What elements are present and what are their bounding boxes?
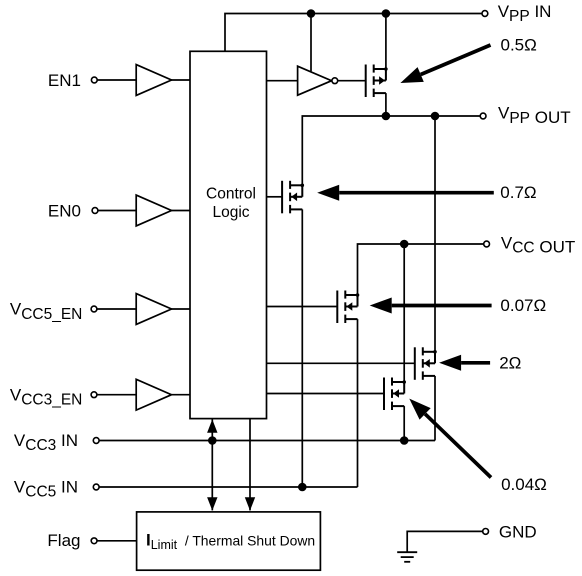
svg-text:2Ω: 2Ω (499, 354, 521, 373)
buffer U3 VCC5_EN (136, 294, 171, 325)
wire Q3 source down to VCC5 IN corner (357, 319, 359, 487)
label Flag (47, 531, 80, 550)
wire buffer U1 to control logic (172, 79, 191, 81)
svg-text:0.5Ω: 0.5Ω (501, 35, 537, 54)
arrowhead A up into control logic (207, 419, 217, 432)
wire inverter supply drop (310, 14, 312, 72)
wire control logic to Q4 gate (267, 362, 415, 364)
label VCC5 IN (14, 477, 78, 500)
svg-text:Flag: Flag (47, 531, 80, 550)
svg-text:0.07Ω: 0.07Ω (500, 296, 546, 315)
buffer U1 EN1 (136, 65, 171, 96)
wire inverter to Q1 gate (338, 80, 366, 82)
svg-text:0.04Ω: 0.04Ω (501, 475, 547, 494)
wire VPP IN top rail (225, 14, 482, 52)
label GND (499, 522, 537, 541)
junction dot top rail / Q1 drain (382, 9, 391, 18)
terminal EN0 (92, 208, 98, 214)
arrow 0.07ohm (370, 298, 492, 314)
junction dot VCC3 IN / limit sense (208, 436, 217, 445)
terminal VPP OUT (480, 113, 486, 119)
terminal EN1 (91, 77, 97, 83)
svg-text:EN1: EN1 (48, 71, 81, 90)
junction dot VPP OUT / Q1 source (382, 112, 391, 121)
wire buffer U3 to control logic (172, 308, 191, 310)
terminal VCC3 IN (93, 438, 99, 444)
wire control logic to Q2 gate (267, 196, 283, 198)
wire buffer U2 to control logic (172, 210, 191, 212)
wire Q5 source down to VCC3 IN rail (403, 406, 405, 440)
junction dot VPP OUT / 2ohm bus (431, 112, 440, 121)
inverter U5 (298, 66, 338, 95)
wire Q2 source down to VCC5 IN rail (301, 209, 303, 487)
wire buffer U4 to control logic (172, 394, 191, 396)
wire control logic to Q5 gate (267, 393, 385, 395)
buffer U2 EN0 (136, 195, 171, 226)
svg-text:GND: GND (499, 522, 537, 541)
svg-text:Control: Control (206, 185, 256, 202)
arrow 0.5ohm (400, 45, 490, 83)
svg-text:EN0: EN0 (48, 201, 81, 220)
transistor Q2 0.7ohm (282, 181, 304, 214)
wire EN0 to buffer (98, 210, 136, 212)
label 0.07ohm (500, 296, 546, 315)
junction dot top rail / inverter supply (307, 9, 316, 18)
wire VCC5_EN to buffer (97, 308, 136, 310)
wire sense line B control to limit box (249, 419, 251, 511)
buffer U4 VCC3_EN (136, 379, 171, 410)
wire Q4 source down to VCC3 IN corner (434, 376, 436, 441)
label 0.7ohm (500, 183, 536, 202)
wire VPP OUT rail (302, 116, 480, 185)
wire sense line A control to limit box (211, 419, 213, 511)
wire control logic to inverter (267, 80, 298, 82)
wire Q1 source to VPP OUT rail (385, 93, 387, 116)
label VCC5_EN (10, 300, 83, 323)
label VCC3 IN (14, 431, 78, 454)
terminal VPP IN (482, 11, 488, 17)
terminal VCC5_EN (91, 306, 97, 312)
label 2ohm (499, 354, 521, 373)
label VPP OUT (498, 104, 571, 127)
ground symbol (397, 552, 417, 562)
wire VCC3 IN rail (99, 440, 435, 442)
arrow 2ohm (439, 355, 490, 371)
transistor Q5 0.04ohm (384, 378, 406, 411)
label EN1 (48, 71, 81, 90)
transistor Q3 0.07ohm (337, 291, 359, 324)
label 0.04ohm (501, 475, 547, 494)
terminal GND (483, 529, 489, 535)
wire control logic to Q3 gate (267, 306, 338, 308)
current limit thermal shutdown box (137, 512, 321, 570)
label VCC OUT (501, 233, 575, 256)
junction dot VCC OUT / Q5 drain bus (400, 240, 409, 249)
junction dot VCC5 IN / Q2 source (298, 483, 307, 492)
arrow 0.04ohm (409, 399, 491, 478)
svg-text:VPP OUT: VPP OUT (498, 104, 571, 127)
junction dot VCC3 IN / Q5 source (400, 436, 409, 445)
wire GND (407, 531, 482, 551)
svg-text:VCC OUT: VCC OUT (501, 233, 575, 256)
label ILimit Thermal Shut Down (146, 530, 315, 552)
wire VCC OUT rail (358, 244, 484, 295)
svg-text:0.7Ω: 0.7Ω (500, 183, 536, 202)
wire VCC3_EN to buffer (97, 394, 136, 396)
svg-text:Logic: Logic (212, 204, 249, 221)
wire Flag to limit box (97, 540, 137, 542)
arrowhead B down into limit box (245, 497, 255, 510)
wire VCC5 IN rail (99, 486, 357, 488)
label EN0 (48, 201, 81, 220)
label Control Logic (206, 185, 256, 221)
transistor Q1 0.5ohm (366, 65, 388, 98)
wire VPP OUT to Q4 drain bus (434, 116, 436, 352)
wire EN1 to buffer (97, 79, 136, 81)
arrow 0.7ohm (317, 185, 494, 201)
terminal VCC OUT (484, 241, 490, 247)
terminal Flag (91, 538, 97, 544)
label 0.5ohm (501, 35, 537, 54)
wire Q1 drain to top rail (385, 14, 387, 70)
label VCC3_EN (10, 385, 83, 408)
terminal VCC5 IN (93, 484, 99, 490)
wire VCC OUT to Q5 drain bus (403, 244, 405, 382)
arrowhead A down into limit box (207, 497, 217, 510)
transistor Q4 2ohm (415, 347, 437, 380)
terminal VCC3_EN (91, 392, 97, 398)
control logic box (190, 51, 267, 418)
label VPP IN (498, 2, 552, 25)
